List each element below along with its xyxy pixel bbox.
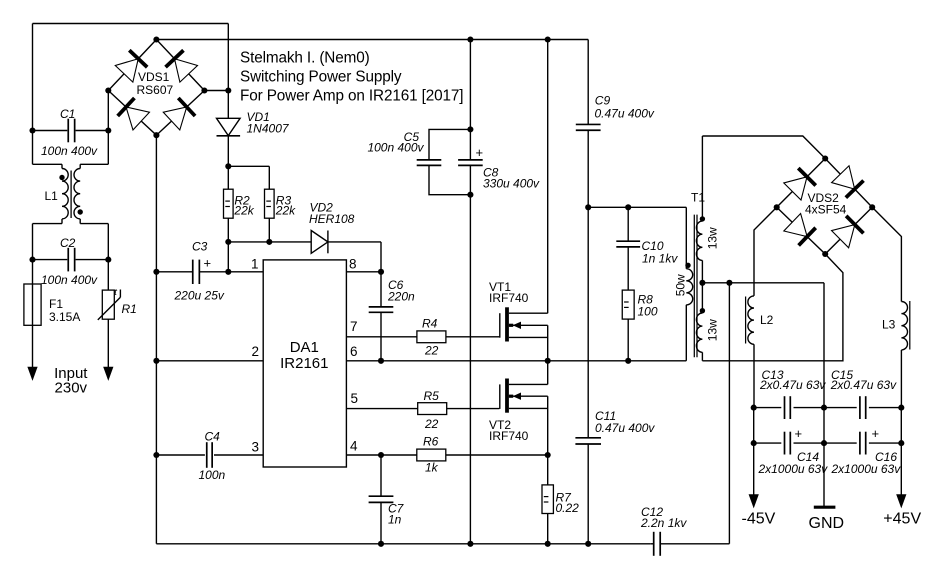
node row2 mid: [821, 440, 827, 446]
wire right out vertical: [900, 408, 902, 444]
wire C10 top lead: [627, 207, 629, 241]
label VT1: [489, 280, 529, 305]
svg-text:1k: 1k: [425, 461, 439, 475]
node VDS1 right: [201, 87, 207, 93]
pin 4 label: [350, 439, 358, 454]
capacitor C14: [785, 432, 791, 455]
svg-text:22k: 22k: [275, 203, 296, 217]
capacitor C3: [193, 260, 200, 284]
wire top DC rail: [156, 39, 588, 41]
node R2R3 top: [225, 163, 231, 169]
pin 2 label: [251, 344, 259, 359]
wire +45V lead: [900, 443, 902, 494]
svg-text:1: 1: [251, 257, 259, 272]
wire C14 row: [754, 442, 824, 444]
transistor Q2 VT2 channel bar: [505, 379, 509, 413]
svg-text:C9: C9: [595, 94, 611, 108]
wire T1 sec bottom lead: [701, 352, 703, 361]
label R6: [423, 435, 439, 475]
wire pin7 row: [346, 336, 499, 338]
capacitor C1: [33, 119, 109, 143]
wire VDS1 right node to VD1 line: [204, 90, 228, 92]
resistor R8: [622, 290, 634, 319]
svg-text:2x1000u 63v: 2x1000u 63v: [831, 462, 902, 476]
node bottom R7: [545, 541, 551, 547]
node C2 right: [105, 257, 111, 263]
pin 6 label: [350, 344, 358, 359]
svg-text:C1: C1: [60, 107, 75, 121]
transistor Q2 VT2 arrow stub: [509, 393, 548, 400]
svg-text:C3: C3: [192, 240, 208, 254]
wire C10 R8 link: [627, 247, 629, 290]
op-amp U1 DA1 IR2161 box: [263, 260, 346, 467]
svg-text:Switching Power Supply: Switching Power Supply: [240, 69, 402, 86]
wire C5C8 vertical upper: [469, 40, 471, 161]
wire R2 top lead: [227, 166, 229, 189]
svg-text:220u 25v: 220u 25v: [174, 289, 225, 303]
wire bridge left node drop: [107, 91, 109, 131]
label C6: [387, 278, 415, 304]
wire pin1 row: [156, 271, 263, 273]
L1 polarity dot left: [59, 175, 64, 180]
label DA1: [280, 339, 328, 372]
wire left out vertical: [753, 408, 755, 444]
wire left mains leg upper: [32, 24, 34, 131]
transformer T1 primary winding: [686, 269, 692, 305]
svg-text:1n 1kv: 1n 1kv: [642, 252, 678, 266]
wire -45V lead: [753, 443, 755, 494]
svg-text:100n 400v: 100n 400v: [41, 144, 98, 158]
wire VDS2 left to L2: [754, 207, 777, 296]
wire F1 lead: [32, 260, 34, 368]
capacitor C8: [458, 160, 483, 166]
label C4 value: [199, 468, 226, 482]
wire R1 lead top: [107, 260, 109, 291]
wire mid vertical: [823, 408, 825, 444]
wire R2R3 top link: [228, 165, 269, 167]
core L2: [745, 297, 747, 344]
wire L1 left bottom stub: [33, 219, 63, 260]
wire pin4 row: [346, 454, 547, 456]
node C10 top: [625, 204, 631, 210]
node C1 right: [105, 127, 111, 133]
transformer T1 secondary winding 2: [696, 313, 702, 352]
node rail pin1 row: [153, 269, 159, 275]
label C13: [759, 368, 826, 392]
node C1 left: [29, 127, 35, 133]
node VDS2 bottom: [822, 251, 828, 257]
svg-text:+: +: [204, 256, 212, 271]
svg-text:F1: F1: [49, 297, 63, 311]
wire C9 bottom lead: [587, 130, 589, 207]
bridge VDS1 frame: [108, 40, 204, 136]
label C12: [640, 505, 687, 530]
svg-text:C2: C2: [60, 236, 76, 250]
svg-text:HER108: HER108: [309, 212, 355, 226]
label C16: [831, 450, 902, 476]
label C1: [60, 107, 75, 121]
arrow -45V: [749, 495, 758, 508]
resistor R2: [224, 189, 234, 218]
label C2: [60, 236, 76, 250]
node R3 bottom: [266, 239, 272, 245]
capacitor C15: [860, 396, 866, 419]
wire T1 sec top lead: [701, 136, 703, 221]
svg-text:IRF740: IRF740: [489, 291, 529, 305]
pin 3 label: [251, 440, 259, 455]
wire VT1 drain vertical: [547, 40, 549, 314]
svg-text:0.47u 400v: 0.47u 400v: [595, 107, 655, 121]
capacitor C4: [207, 442, 212, 468]
label T1 13w upper: [705, 227, 719, 249]
wire VT2 source lead: [547, 396, 549, 455]
node VDS2 right: [869, 204, 875, 210]
svg-text:C4: C4: [205, 430, 221, 444]
wire C7 top lead: [380, 455, 382, 496]
label C11: [595, 409, 655, 435]
wire R2 bottom lead: [227, 218, 229, 272]
node T1 center tap: [699, 280, 705, 286]
svg-text:5: 5: [351, 391, 359, 406]
node C13 C15 mid: [821, 405, 827, 411]
capacitor C16: [860, 432, 866, 455]
label C14 plus: [795, 426, 803, 441]
node bottom C5C8: [467, 541, 473, 547]
label +45V: [883, 511, 921, 528]
label VT2: [489, 418, 529, 443]
transistor Q1 VT1 gate bar: [499, 313, 501, 338]
node rail pin3 row: [153, 452, 159, 458]
inductor L1 left winding: [62, 169, 68, 219]
diode VDS2 D1 (left-to-top): [784, 168, 816, 200]
label T1: [691, 191, 705, 205]
resistor R6: [417, 449, 446, 461]
node pin1 junction: [225, 269, 231, 275]
label C8 plus: [476, 145, 484, 160]
label C14: [758, 450, 829, 476]
varistor R1: [102, 290, 114, 319]
wire C6 bottom lead: [380, 312, 382, 361]
capacitor C11: [575, 438, 601, 444]
wire R3 top lead: [268, 166, 270, 189]
pin 5 label: [351, 391, 359, 406]
wire GND drop: [728, 283, 730, 544]
label C10: [642, 239, 679, 266]
wire pin3 row: [156, 454, 263, 456]
svg-text:+: +: [795, 426, 803, 441]
resistor R7: [542, 485, 553, 514]
transistor Q2 VT2 source stub: [509, 407, 548, 409]
node C2 left: [29, 257, 35, 263]
wire VT1 source lead: [547, 325, 549, 361]
svg-text:330u 400v: 330u 400v: [483, 177, 540, 191]
label T1 50w: [673, 274, 687, 296]
node half-bridge mid: [545, 358, 551, 364]
wire R7 bottom lead: [547, 514, 549, 544]
wire C5C8 vertical lower: [469, 165, 471, 543]
wire pin5 row: [346, 408, 499, 410]
T1 secondary 1 polarity dot: [700, 216, 705, 221]
svg-text:2: 2: [251, 344, 259, 359]
svg-text:-45V: -45V: [742, 511, 776, 528]
wire pin8: [346, 271, 381, 273]
pin 8 label: [349, 257, 357, 272]
svg-text:22: 22: [424, 344, 439, 358]
label R3: [275, 194, 296, 218]
svg-text:L1: L1: [45, 189, 59, 203]
wire VD2 anode: [228, 241, 311, 243]
wire VD1 cathode lead: [227, 136, 229, 167]
wire bottom rail: [156, 543, 650, 545]
wire L2 bottom lead: [753, 344, 755, 407]
label C3: [192, 240, 211, 271]
core L1: [70, 171, 72, 219]
inductor L1 right winding: [74, 169, 80, 219]
label C7: [388, 502, 405, 527]
inductor L2: [748, 296, 754, 344]
svg-text:3.15A: 3.15A: [49, 310, 80, 324]
label R5: [424, 389, 440, 431]
inductor L3: [901, 302, 907, 350]
svg-text:6: 6: [350, 344, 358, 359]
svg-text:Stelmakh I. (Nem0): Stelmakh I. (Nem0): [240, 50, 370, 67]
node C8 bottom: [467, 192, 473, 198]
label VD1: [247, 110, 290, 136]
node center tap GND drop: [726, 280, 732, 286]
wire C5 branch: [429, 129, 470, 194]
ground GND bar: [814, 506, 836, 509]
node VDS1 top: [153, 36, 159, 42]
svg-text:For Power Amp on IR2161 [2017]: For Power Amp on IR2161 [2017]: [240, 88, 463, 105]
label R4: [422, 317, 439, 358]
svg-text:+45V: +45V: [883, 511, 921, 528]
wire center tap row: [702, 283, 824, 408]
node bottom C11: [585, 541, 591, 547]
transistor Q1 VT1 channel bar: [505, 307, 509, 341]
wire R3 bottom lead: [268, 218, 270, 242]
svg-text:22: 22: [424, 417, 439, 431]
wire R8 bottom lead: [627, 319, 629, 361]
capacitor C13: [785, 396, 791, 419]
svg-text:0.47u 400v: 0.47u 400v: [595, 421, 655, 435]
arrow +45V: [897, 495, 906, 508]
svg-text:t: t: [114, 287, 117, 298]
svg-text:0.22: 0.22: [556, 501, 580, 515]
capacitor C5: [417, 160, 442, 166]
wire R1 lead bottom: [107, 319, 109, 367]
label VDS2: [805, 191, 847, 217]
transistor Q1 VT1 drain stub: [509, 312, 548, 314]
svg-text:2x0.47u 63v: 2x0.47u 63v: [830, 378, 897, 392]
wire C11 top lead: [587, 207, 589, 438]
wire VDS2 right to L3: [872, 207, 901, 407]
wire bridge bottom rail: [155, 135, 157, 544]
svg-text:100n 400v: 100n 400v: [367, 141, 424, 155]
diode VDS2 D3 (left-to-bottom): [784, 213, 816, 245]
diode VD2: [311, 231, 328, 254]
transistor Q1 VT1 arrow stub: [509, 322, 548, 329]
label C16 plus: [872, 426, 880, 441]
svg-text:2x0.47u 63v: 2x0.47u 63v: [759, 378, 826, 392]
wire C9 top lead: [587, 40, 589, 125]
node C13 left: [751, 405, 757, 411]
wire GND lead: [823, 443, 825, 506]
svg-text:100n 400v: 100n 400v: [41, 273, 98, 287]
label C15: [830, 368, 897, 392]
fuse F1: [24, 284, 41, 325]
svg-text:100n: 100n: [199, 468, 226, 482]
node C16 right: [898, 440, 904, 446]
node C9 bottom: [585, 204, 591, 210]
capacitor C2: [33, 248, 109, 272]
svg-text:3: 3: [251, 440, 259, 455]
wire C12 left lead: [651, 543, 654, 545]
wire L1 right top stub: [80, 131, 108, 169]
node VT2 source R6 R7: [545, 452, 551, 458]
wire C6 top lead: [380, 272, 382, 307]
svg-text:7: 7: [350, 319, 358, 334]
node R8 bottom: [625, 358, 631, 364]
T1 primary polarity dot: [685, 263, 690, 268]
label C5: [367, 130, 424, 155]
svg-text:4: 4: [350, 439, 358, 454]
title text: [240, 50, 463, 105]
wire T1 sec mid: [701, 260, 703, 313]
label R1: [114, 287, 137, 316]
label T1 13w lower: [705, 319, 719, 341]
diode VDS1 D3 (bottom-to-left): [118, 98, 150, 130]
node pin8: [378, 269, 384, 275]
transistor Q1 VT1 source stub: [509, 336, 548, 338]
node VDS2 left: [774, 204, 780, 210]
label L2: [760, 313, 774, 327]
wire primary top row: [588, 207, 686, 268]
svg-text:T1: T1: [691, 191, 705, 205]
transistor Q2 VT2 drain stub: [509, 383, 548, 385]
wire L1 left top stub: [33, 131, 63, 169]
svg-text:4xSF54: 4xSF54: [805, 203, 847, 217]
varistor R1 diagonal: [98, 290, 121, 320]
label GND: [809, 515, 845, 532]
svg-text:R1: R1: [122, 302, 137, 316]
svg-text:8: 8: [349, 257, 357, 272]
svg-text:22k: 22k: [233, 203, 254, 217]
resistor R4: [417, 331, 446, 343]
core T1: [694, 215, 697, 358]
wire pin6 row: [346, 360, 547, 362]
transformer T1 secondary winding 1: [696, 221, 702, 260]
L1 polarity dot right: [78, 209, 83, 214]
wire VD2 cathode to pin8: [328, 242, 381, 272]
wire mid row to primary: [548, 305, 687, 361]
svg-text:+: +: [872, 426, 880, 441]
label R8: [638, 293, 658, 319]
svg-text:IRF740: IRF740: [489, 429, 529, 443]
svg-text:2.2n 1kv: 2.2n 1kv: [640, 516, 687, 530]
svg-text:L3: L3: [882, 318, 896, 332]
node pin4: [378, 452, 384, 458]
capacitor C12: [654, 532, 661, 556]
svg-text:L2: L2: [760, 313, 774, 327]
label R2: [233, 194, 254, 218]
wire top-left mains loop: [33, 24, 229, 91]
wire sec top to VDS2: [702, 136, 825, 159]
node VD1 line top: [225, 87, 231, 93]
node VDS1 bottom: [153, 132, 159, 138]
node VDS1 left: [105, 87, 111, 93]
core L3: [909, 301, 911, 350]
svg-text:IR2161: IR2161: [280, 355, 328, 372]
diode VDS1 D1 (left-to-top): [115, 50, 147, 82]
label F1: [49, 297, 80, 324]
svg-text:RS607: RS607: [137, 83, 174, 97]
capacitor C9: [576, 124, 601, 130]
wire L1 right bottom stub: [80, 219, 108, 260]
svg-text:100: 100: [638, 305, 658, 319]
label VDS1: [137, 70, 174, 97]
svg-text:13w: 13w: [705, 319, 719, 341]
svg-text:220n: 220n: [387, 290, 415, 304]
label C1 value: [41, 144, 98, 158]
node C15 right: [898, 405, 904, 411]
wire C13 row: [754, 407, 824, 409]
svg-text:1n: 1n: [388, 513, 402, 527]
label L1: [45, 189, 59, 203]
diode VDS2 D4 (bottom-to-right): [831, 216, 863, 248]
resistor R3: [265, 189, 275, 218]
label R7: [556, 491, 580, 516]
svg-text:+: +: [476, 145, 484, 160]
wire C16 row: [824, 442, 901, 444]
pin 7 label: [350, 319, 358, 334]
wire C12 right to GND drop: [660, 543, 729, 545]
svg-text:VDS1: VDS1: [138, 70, 170, 84]
label C9: [595, 94, 655, 121]
wire C11 bottom lead: [587, 444, 589, 544]
input arrow left: [28, 367, 37, 380]
input arrow right: [104, 367, 113, 380]
svg-text:230v: 230v: [55, 380, 88, 397]
label C4: [205, 430, 221, 444]
node VDS2 top: [822, 155, 828, 161]
label -45V: [742, 511, 776, 528]
resistor R5: [418, 403, 447, 415]
wire C15 row: [824, 407, 901, 409]
capacitor C6: [369, 307, 394, 312]
wire VD1 anode lead: [227, 91, 229, 119]
bridge VDS2 frame: [777, 159, 873, 255]
svg-text:1N4007: 1N4007: [247, 122, 290, 136]
label VD2: [309, 201, 355, 227]
svg-text:R4: R4: [422, 317, 438, 331]
label C3 value: [174, 289, 225, 303]
node rail pin2 row: [153, 358, 159, 364]
label C2 value: [41, 273, 98, 287]
label C8: [483, 166, 540, 191]
wire sec bottom to VDS2: [702, 254, 843, 361]
wire C7 bottom lead: [380, 502, 382, 543]
svg-text:13w: 13w: [705, 227, 719, 249]
wire pin2: [156, 360, 263, 362]
node pin6 C6: [378, 358, 384, 364]
svg-text:R6: R6: [423, 435, 439, 449]
svg-text:50w: 50w: [673, 274, 687, 296]
T1 secondary 2 polarity dot: [700, 308, 705, 313]
diode VD1: [217, 118, 241, 136]
capacitor C10: [616, 241, 640, 247]
diode VDS1 D4 (bottom-to-right): [163, 98, 195, 130]
node C5 top: [467, 126, 473, 132]
